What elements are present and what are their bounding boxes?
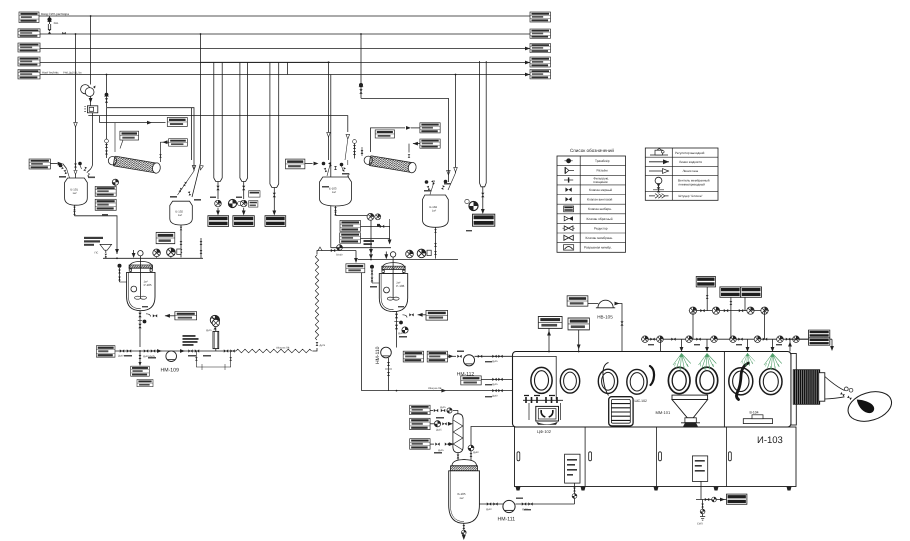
valves on line y=250.5 (329, 245, 356, 257)
verticals upper manifold (693, 287, 765, 339)
svg-text:Регулятор выходной: Регулятор выходной (675, 151, 705, 155)
legend sym: линия жидкости (649, 159, 669, 164)
second label box below (137, 380, 153, 387)
header label box R5 (right) (530, 70, 550, 79)
bus line L3 (40, 48, 530, 50)
valve under tube D3 (273, 188, 276, 212)
cabinet dividers (585, 427, 726, 487)
svg-text:ХВ1: ХВ1 (54, 22, 59, 25)
TI2 drain vertical (361, 273, 363, 391)
metering pump under D2 (240, 200, 247, 207)
main transfer header y=351 (train1) (115, 350, 236, 352)
valve cluster below R-106 (398, 327, 408, 335)
svg-text:пневмоприводный: пневмоприводный (679, 182, 706, 186)
mini label right of pump D2 (249, 201, 258, 207)
dark label box under D2 (233, 216, 254, 227)
bus line L5 (40, 74, 530, 76)
small glove near O5 (650, 366, 654, 385)
svg-text:Р-105: Р-105 (144, 283, 152, 287)
drain valve below junction (138, 351, 141, 366)
arrow to label under D1 (216, 208, 220, 216)
line from stack to reactor drop (361, 224, 392, 245)
R-105 left nozzle valves (118, 264, 127, 282)
V-105 discharge line to NM-111 (479, 502, 503, 510)
chamber partition (723, 352, 725, 428)
svg-text:Ду50: Ду50 (398, 332, 404, 335)
dark label box at drain (727, 494, 747, 504)
condenser C1 (108, 156, 161, 174)
label box below junction (131, 366, 150, 376)
feed label box B4 (left) (18, 57, 40, 66)
reactor R-106 top manifold (358, 259, 458, 261)
label box K3 (410, 439, 454, 452)
svg-text:Е-103: Е-103 (329, 187, 337, 191)
legend sym: разрывная мембрана (564, 245, 574, 250)
svg-text:Ду40: Ду40 (492, 395, 498, 398)
bus line L4 (40, 62, 530, 64)
V-105 bottom drain (461, 523, 466, 540)
arrowhead into R3 (525, 47, 530, 51)
hose corner to vertical (312, 348, 317, 351)
feed label box B3 (left) (18, 43, 40, 52)
arrowhead into R4 (525, 61, 530, 65)
svg-text:Трамблёр: Трамблёр (595, 159, 610, 163)
C1 inlet valve group (105, 108, 109, 158)
manifold fittings group a (642, 336, 664, 343)
legend sym: клапан обратный (564, 216, 573, 221)
header valves left (118, 349, 131, 357)
seal instruments above (367, 213, 390, 226)
mini label above pump D2 (249, 191, 260, 197)
E-101 bottom outlet valves (73, 205, 76, 216)
svg-text:Ду40: Ду40 (486, 508, 492, 511)
svg-text:Линия газа: Линия газа (683, 169, 699, 173)
C1 outlet valve (159, 154, 162, 158)
svg-text:СИП: СИП (697, 523, 703, 526)
charge funnel (95, 244, 112, 257)
glove port O8 (760, 369, 782, 395)
rotor pump under D4 (465, 199, 478, 210)
hose top corner with vent (317, 247, 329, 255)
svg-text:Клапан мембранн.: Клапан мембранн. (586, 236, 614, 240)
blower NV-105 (567, 296, 623, 352)
NM-112 discharge to isolator (475, 355, 513, 363)
svg-text:2м³: 2м³ (460, 497, 464, 500)
pump NM-112 (457, 355, 475, 378)
svg-text:Ду15: Ду15 (206, 329, 212, 332)
arrow below blower (89, 98, 93, 103)
nitrogen header y=115.6 (88, 116, 348, 132)
thermostat label box (167, 118, 187, 127)
svg-text:Клапан мерный: Клапан мерный (589, 188, 612, 192)
spray feed drops (680, 339, 775, 352)
E-103 nozzle flags (322, 162, 343, 170)
supply label box with drop (568, 318, 589, 352)
vessel E-102 (170, 201, 193, 225)
line down to TI2 box (354, 251, 358, 264)
condenser C2 (364, 155, 417, 173)
svg-text:2м³: 2м³ (144, 280, 148, 283)
E-101 nozzle flags (59, 162, 81, 169)
dosing tube D4 (train2) (480, 61, 487, 187)
header junction fittings at reactor drop (143, 349, 162, 358)
svg-text:Клапан шиберн.: Клапан шиберн. (588, 207, 612, 211)
feed label box B2 (left) (18, 29, 40, 38)
E-104 bottom outlet valves (434, 227, 437, 258)
svg-text:ШС-102: ШС-102 (635, 399, 647, 403)
legend sym: редуктор (563, 226, 575, 231)
svg-text:Е-101: Е-101 (71, 188, 79, 192)
clamp instruments on neck (840, 387, 853, 400)
thermostat feed line y=122.6 (100, 122, 166, 124)
dark label box above manifold (696, 277, 715, 287)
filter spec text block (183, 335, 199, 346)
curved feed pipe to sieve (603, 363, 609, 396)
centrifuge CF-102 (523, 396, 563, 425)
E-103 inlet nozzle valves (324, 160, 351, 177)
svg-text:ПС: ПС (95, 252, 99, 255)
comb connector stub (287, 62, 289, 74)
open arrow on drop x=75.5 (74, 122, 78, 127)
label box K2 (410, 418, 453, 431)
dosing header y=62.3 comb top (200, 61, 330, 63)
label box TI2 (346, 264, 365, 273)
cross header y=247.7 (331, 247, 391, 249)
label boxes И-102 (pair) (403, 351, 447, 362)
cabinet base (515, 427, 797, 487)
label box with arrow near D3 (feed to train2) (286, 159, 319, 169)
isolator chamber (513, 352, 792, 428)
svg-text:Вход СИП-раствора: Вход СИП-раствора (41, 12, 69, 16)
door handles (517, 452, 731, 461)
svg-text:1м³: 1м³ (73, 192, 77, 195)
agitator seal instruments above R-106 (406, 249, 431, 258)
pump NM-109 (161, 351, 180, 374)
manifold arrows train2 (369, 252, 388, 260)
dosing tube D2 (240, 62, 248, 181)
svg-text:Линия жидкости: Линия жидкости (679, 160, 702, 164)
cooling label box over C1 (120, 131, 139, 140)
E-102 bottom outlet valves (180, 225, 183, 257)
machine feet (516, 487, 792, 491)
svg-text:Разрывная мембр.: Разрывная мембр. (584, 246, 612, 250)
recycle header y=107.7 (191, 108, 193, 160)
svg-text:Е-102: Е-102 (176, 210, 184, 214)
glove port O1 (531, 367, 552, 393)
dosing tube D1 (214, 62, 222, 181)
legend sym: линия газа (649, 169, 669, 174)
upper utility manifold (689, 310, 769, 312)
drop pipe x=90.6 from L1 to gas blower (90, 16, 92, 85)
R-105 sample line with label box (146, 312, 197, 320)
legend sym: фильтр (564, 177, 573, 182)
dark label box under D4 (473, 214, 495, 226)
E-101 center inlet valve (74, 161, 77, 179)
C1 vapor line to thermostat label (114, 123, 116, 152)
svg-text:Обогрев ПВ: Обогрев ПВ (276, 347, 290, 350)
exhaust label box with riser (538, 317, 562, 352)
svg-text:Разъём: Разъём (597, 169, 608, 173)
E-101 left inlet nozzle valves (60, 165, 69, 178)
drop to chamber at 660.5 (660, 339, 662, 351)
svg-text:очищение: очищение (593, 180, 608, 184)
reactor R-105 top manifold (103, 257, 203, 259)
label box K1 (410, 405, 458, 415)
arrow to label under D3 (272, 211, 276, 216)
check valve on L2 (62, 32, 66, 35)
svg-text:НМ-109: НМ-109 (161, 368, 180, 374)
vessel E-103 (320, 177, 352, 206)
flexible hose (vertical zigzag) (315, 255, 318, 340)
svg-text:В-105: В-105 (458, 492, 466, 496)
R-106 bottom outlet valves (394, 312, 402, 348)
legend sym: клапан шиберный (564, 206, 574, 212)
svg-text:Ду25: Ду25 (438, 449, 444, 452)
label box right of condenser C1 (169, 139, 188, 146)
bag neck funnel (825, 377, 845, 400)
reactor R-105 (127, 250, 155, 310)
arrow on transfer pipe (115, 249, 119, 254)
right manifold drop (830, 339, 834, 351)
legend sym: разъём (565, 167, 574, 174)
valve chain x=201 right of reactor (200, 238, 203, 258)
arrow + size on slurry header (428, 387, 503, 398)
upper manifold fittings (689, 307, 768, 314)
drop pipe x=75.5 from L2 (75, 34, 77, 161)
reactor R-106 (379, 252, 407, 312)
legend table2 texts (675, 151, 710, 198)
legend sym: штуцер ёлочка (649, 194, 669, 199)
legend sym: вентиль мембранный с приводом (653, 177, 664, 192)
svg-text:Ду25: Ду25 (492, 360, 498, 363)
bus line L1 (39, 15, 530, 17)
svg-text:Клапан обратный: Клапан обратный (587, 217, 613, 221)
hose isolation valve (316, 342, 326, 347)
svg-text:Азот technic: Азот technic (42, 71, 59, 75)
mill MM-101 hopper (672, 395, 708, 427)
E-101 right inlet nozzle valves (83, 167, 90, 177)
drain down to sewer (697, 500, 705, 526)
legend table 2 frame (645, 148, 718, 200)
drop pipe x=200.5 from L2 to vessel E-102 (192, 34, 201, 197)
header label box R2 (right) (530, 29, 550, 38)
chamber right double wall (791, 354, 796, 426)
svg-text:ЦФ-102: ЦФ-102 (537, 429, 552, 434)
open arrow x=200.5 (199, 165, 204, 170)
heating label box over C2 (375, 130, 394, 138)
label box at header start (96, 346, 115, 357)
svg-text:PN6 Ду25х1,5м: PN6 Ду25х1,5м (63, 71, 82, 74)
panel P2 drain line (696, 481, 727, 502)
stub x=99.6 (99, 116, 101, 123)
E-104 inlet nozzle valves (427, 180, 445, 194)
glove port O7 (729, 368, 753, 395)
vent valve on x=106.5 from L5 (104, 75, 108, 108)
label box under NM-112 (461, 376, 481, 385)
label box left of E-101 (29, 159, 66, 169)
utility label stack near R-106 (340, 221, 361, 244)
instrument on E-101 (112, 179, 118, 185)
svg-text:Клапан винтовой: Клапан винтовой (587, 198, 612, 202)
C2 inlet valve group (353, 140, 364, 159)
svg-text:50х30: 50х30 (336, 254, 343, 257)
main spray manifold (641, 338, 832, 340)
header label box R4 (right) (530, 57, 550, 67)
svg-text:В-104: В-104 (750, 411, 759, 415)
legend sym: тройник (565, 159, 573, 163)
pump NM-110 (375, 346, 391, 364)
C2 outlet line from box R2b (408, 142, 420, 158)
legend table 1 frame (557, 156, 626, 252)
stand V-104 (743, 415, 772, 424)
agitator seal instruments above R-105 (153, 248, 181, 258)
open arrow x=328.5 (327, 132, 331, 137)
transfer pipe E-103 to reactor manifold (336, 216, 373, 255)
svg-text:Р-106: Р-106 (396, 284, 404, 288)
dark label box under D1 (208, 216, 229, 227)
waste text block (84, 237, 103, 246)
pipe junction nodes (75, 15, 580, 391)
header label box R3 (right) (530, 44, 550, 53)
header valves after pump (180, 349, 235, 353)
flexible hose (horizontal zigzag) (236, 349, 312, 353)
glove port O4 (627, 369, 647, 394)
arrow to label under D2 (242, 208, 246, 216)
NM-111 discharge (516, 502, 575, 510)
spray nozzle 3 (741, 353, 755, 367)
C1 feed stub (120, 140, 123, 149)
open arrow x=448.4 (447, 170, 451, 175)
valve under tube D2 (242, 182, 245, 200)
arrow into box from condenser line (163, 140, 168, 144)
discharge bag (844, 387, 895, 427)
centrifuge feed pipe inside chamber (513, 356, 557, 399)
svg-text:Ду50: Ду50 (473, 451, 479, 454)
bellows (793, 370, 825, 405)
vessel V-105 (449, 460, 480, 524)
svg-text:Штуцер "ёлочка": Штуцер "ёлочка" (679, 194, 703, 198)
reflux coil condenser over V-105 (453, 414, 463, 453)
R-106 sample line with label box (403, 310, 448, 320)
dark label box under D3 (265, 216, 286, 227)
vessel E-104 (423, 195, 449, 227)
glove hanging at O7 (736, 363, 748, 400)
NM-110 discharge valves (385, 358, 392, 391)
svg-text:НМ-110: НМ-110 (375, 346, 381, 364)
R-106 left nozzle valves (370, 265, 379, 283)
svg-text:1м³: 1м³ (432, 210, 436, 213)
misc tiny spec texts (59, 173, 782, 510)
panel P1 drain line (572, 483, 577, 504)
sieve shaker ShS-102 (609, 397, 633, 426)
svg-text:Е-104: Е-104 (430, 205, 438, 209)
inline filter F1 (211, 318, 219, 351)
svg-text:Ду25: Ду25 (320, 344, 326, 347)
E-103 bottom outlet valves (334, 206, 337, 216)
gas line arrow into thermostat (147, 121, 152, 125)
legend sym: клапан винтовой (565, 197, 571, 201)
TI label box above R-105 (156, 232, 175, 243)
svg-text:Ду25: Ду25 (436, 429, 442, 432)
svg-text:1м³: 1м³ (332, 191, 336, 194)
feed line to NM-112 (448, 354, 462, 358)
drop pipe x=330.8 from L5 (330, 75, 332, 248)
open arrow on x=194 drop (192, 165, 196, 170)
svg-text:Обогрев ПВ: Обогрев ПВ (428, 387, 442, 390)
valve under coil condenser (457, 453, 460, 461)
control panel P1 (565, 454, 580, 483)
svg-text:1м³: 1м³ (178, 214, 182, 217)
metering pump under D1 (215, 200, 222, 207)
manifold fittings group c (730, 336, 828, 343)
C1 outlet line to label box (161, 142, 163, 162)
glove port O5 (668, 367, 690, 393)
label stack left of reactor R-105 (95, 186, 116, 210)
glove port O3 (598, 369, 617, 393)
bypass loop under filter (195, 351, 232, 370)
manifold fittings group b (671, 336, 717, 343)
feed label box B5 (left) (18, 70, 40, 79)
pipe from isolator down to V-105 (468, 427, 530, 462)
legend sym: регулятор выходной (650, 148, 668, 155)
svg-text:Ду25: Ду25 (492, 383, 498, 386)
svg-text:Ду40: Ду40 (118, 355, 124, 358)
svg-text:НВ-105: НВ-105 (597, 315, 613, 320)
spray nozzle 2 (699, 353, 717, 370)
drop pipe x=361 from L2 with valve (359, 34, 363, 98)
spray nozzle 1 (673, 353, 691, 370)
wash line into isolator (oval1) (481, 378, 541, 386)
legend sym: клапан мембранный (564, 235, 573, 240)
vessel E-101 (65, 178, 88, 205)
drop pipe x=455.5 from L5 (448, 75, 457, 191)
valve under tube D4 (481, 187, 484, 212)
glove port O6 (696, 367, 718, 393)
bellows label boxes (809, 330, 830, 345)
dosing tube D3 (270, 62, 279, 187)
control panel P2 (692, 456, 707, 482)
glove port O2 (560, 369, 579, 393)
vent line at right corner (786, 339, 809, 351)
svg-text:И-103: И-103 (757, 435, 783, 446)
motor valve XB1 on line L1 (48, 16, 59, 34)
transfer pipe E-101 to reactor manifold (75, 216, 118, 254)
svg-text:2м³: 2м³ (396, 282, 400, 285)
arrowhead into R5 (525, 73, 530, 77)
pressure instrument right (206, 315, 220, 332)
R-105 bottom outlet valves (138, 311, 146, 347)
feed label box B1 (left) (19, 12, 39, 23)
manifold arrows (106, 250, 136, 258)
pump NM-111 (498, 500, 516, 522)
header label box R1 (right) (530, 12, 550, 22)
svg-text:ММ-101: ММ-101 (656, 410, 671, 415)
E-104 nozzle flags (425, 180, 447, 183)
legend sym: клапан мерный (565, 187, 571, 191)
spray nozzle 4 (764, 353, 782, 370)
label box R2b (420, 139, 440, 148)
valve under tube D1 (216, 182, 219, 200)
wide dark label boxes (720, 287, 762, 297)
bus line L2 (40, 33, 530, 35)
line 2 from stack (361, 237, 390, 239)
svg-text:Список обозначений: Список обозначений (570, 148, 614, 153)
spec text block (364, 240, 375, 245)
label box R2a (420, 123, 440, 133)
slurry header y=390.6 to isolator (362, 390, 513, 392)
svg-text:НМ-111: НМ-111 (498, 517, 516, 523)
E-102 inlet nozzle valves (178, 171, 195, 196)
